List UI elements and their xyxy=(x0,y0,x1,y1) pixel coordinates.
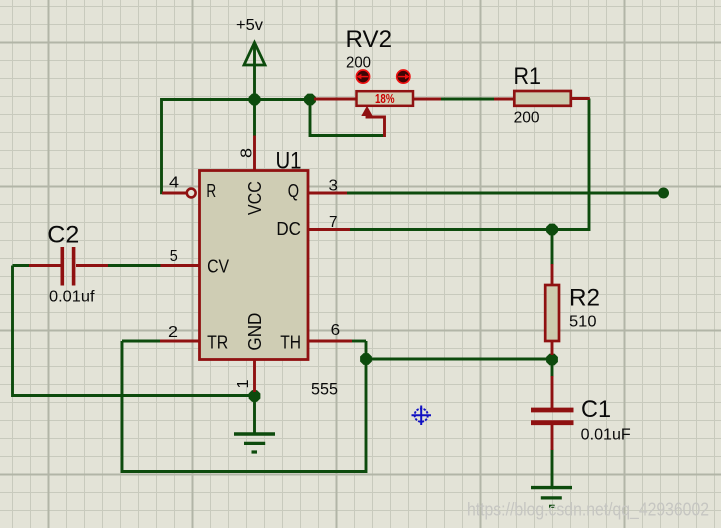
svg-text:TH: TH xyxy=(280,332,301,353)
svg-text:U1: U1 xyxy=(276,148,302,175)
svg-text:3: 3 xyxy=(329,177,339,194)
svg-text:555: 555 xyxy=(311,380,338,399)
svg-text:https://blog.csdn.net/qq_42936: https://blog.csdn.net/qq_42936002 xyxy=(467,500,709,521)
svg-text:R: R xyxy=(206,180,216,201)
svg-text:200: 200 xyxy=(346,54,371,71)
svg-text:5: 5 xyxy=(170,248,178,265)
svg-text:0.01uF: 0.01uF xyxy=(581,427,631,444)
svg-text:2: 2 xyxy=(168,324,178,341)
svg-text:GND: GND xyxy=(244,313,265,351)
svg-text:VCC: VCC xyxy=(244,181,265,215)
svg-text:R2: R2 xyxy=(569,285,600,312)
svg-text:DC: DC xyxy=(276,218,301,239)
svg-text:18%: 18% xyxy=(375,92,395,106)
svg-text:+5v: +5v xyxy=(236,17,263,34)
svg-text:7: 7 xyxy=(329,214,338,231)
svg-text:0.01uf: 0.01uf xyxy=(49,288,95,305)
svg-text:1: 1 xyxy=(235,379,252,388)
svg-text:510: 510 xyxy=(569,314,597,331)
svg-text:C1: C1 xyxy=(581,396,611,423)
svg-text:6: 6 xyxy=(331,322,341,339)
svg-text:RV2: RV2 xyxy=(346,26,393,53)
svg-text:TR: TR xyxy=(207,332,228,353)
svg-text:8: 8 xyxy=(239,148,256,158)
svg-text:R1: R1 xyxy=(514,63,542,90)
svg-text:C2: C2 xyxy=(47,222,79,249)
svg-text:Q: Q xyxy=(288,180,299,201)
svg-text:CV: CV xyxy=(207,256,230,277)
svg-text:4: 4 xyxy=(169,174,179,191)
svg-text:200: 200 xyxy=(514,110,540,127)
